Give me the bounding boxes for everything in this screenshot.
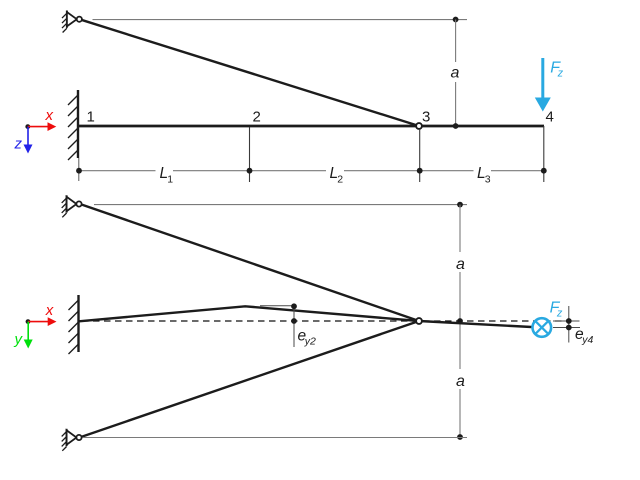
svg-text:a: a [456, 373, 465, 390]
z axis blue arrow [27, 127, 29, 146]
extension line below wall (node 1) [78, 158, 80, 181]
dimension dots [76, 168, 82, 174]
dot middle of a-dimension [457, 318, 463, 324]
a dimension vertical line (top figure) [455, 20, 457, 63]
svg-text:z: z [557, 68, 564, 80]
pin support (lower cable) wall line [66, 429, 68, 446]
extension line node 2 [249, 127, 251, 182]
svg-text:2: 2 [253, 109, 261, 126]
pin support top-left triangle [67, 12, 77, 26]
deflected beam 1-2-3 (top view) [79, 306, 419, 321]
pin support (upper cable) hatching [62, 198, 67, 217]
pin hinge circle (upper cable) [76, 201, 81, 206]
wall line at beam root (bottom figure) [77, 295, 79, 352]
x axis red arrow [28, 126, 49, 128]
svg-text:1: 1 [167, 173, 173, 185]
e_y2 vertical dimension line [293, 306, 295, 347]
a dimension vertical (bottom figure) [459, 205, 461, 252]
dashed undeformed axis [82, 320, 567, 322]
svg-text:z: z [14, 136, 23, 153]
deflected beam 3-4 (top view) [419, 321, 532, 327]
e_y4 vertical dimension line [568, 306, 570, 343]
pin support (lower cable) hatching [62, 432, 67, 451]
pin support (upper cable) wall line [66, 195, 68, 212]
svg-text:1: 1 [87, 109, 95, 126]
node 3 hinge circle (bottom figure) [416, 318, 422, 324]
dot where a-dimension meets beam [453, 123, 459, 129]
wall hatching at beam root (top figure) [68, 95, 78, 160]
thin reference line from lower pin [83, 437, 468, 439]
pin support top-left hatching [62, 13, 67, 32]
pin hinge circle top-left [77, 17, 82, 22]
svg-text:y4: y4 [581, 334, 593, 346]
e_y4 tick at beam end level [553, 327, 580, 329]
force Fz circled-cross (into page) [533, 318, 552, 337]
wall line at beam root (top figure) [77, 90, 79, 158]
cable upper (top view) [80, 204, 419, 321]
svg-text:3: 3 [485, 173, 491, 185]
cable from top pin to node 3 [79, 19, 419, 126]
pin hinge circle (lower cable) [76, 435, 81, 440]
svg-text:x: x [45, 107, 54, 124]
svg-text:3: 3 [422, 109, 430, 126]
pin support top-left wall line [66, 11, 68, 28]
e_y4 tick at dashed axis level [553, 320, 580, 322]
dot at top of a-dimension [453, 17, 459, 23]
e_y4 dots [566, 318, 572, 324]
thin reference line from upper pin [94, 204, 467, 206]
cable lower (top view) [80, 321, 420, 438]
dimension line L1 L2 L3 [79, 170, 156, 172]
origin dot [26, 319, 31, 324]
beam 1-2-3-4 (top figure) [78, 125, 544, 128]
extension line node 4 [543, 126, 545, 182]
svg-text:x: x [45, 302, 54, 319]
pin support (lower cable) triangle [67, 430, 77, 444]
node 3 hinge circle (top figure) [416, 123, 422, 129]
e_y2 extension line from node 2 [260, 305, 293, 307]
x axis red arrow [28, 321, 49, 323]
dot bottom of a-dimension [457, 434, 463, 440]
svg-text:2: 2 [337, 173, 343, 185]
y axis green arrow [27, 322, 29, 341]
pin support (upper cable) triangle [67, 197, 77, 211]
wall hatching at beam root (bottom figure) [69, 300, 79, 354]
svg-text:a: a [451, 65, 460, 82]
force Fz arrow (top figure) [541, 58, 544, 99]
thin horizontal reference line from top pin [93, 19, 468, 21]
svg-text:z: z [556, 308, 563, 320]
origin dot [25, 124, 30, 129]
e_y2 dots [291, 303, 297, 309]
dot top of a-dimension (bottom figure) [457, 202, 463, 208]
svg-text:a: a [456, 256, 465, 273]
extension line node 3 [419, 129, 421, 182]
svg-text:y2: y2 [304, 335, 316, 347]
svg-text:4: 4 [546, 109, 554, 126]
